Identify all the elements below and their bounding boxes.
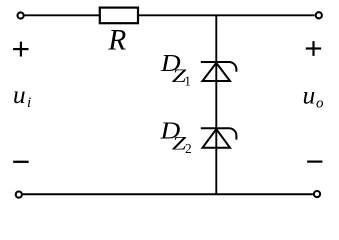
plus sign right: [306, 41, 321, 56]
wire vertical branch: [215, 15, 217, 194]
minus sign right: [307, 161, 322, 163]
label uo: [303, 80, 325, 111]
wire top-left to resistor: [25, 14, 99, 16]
label DZ2: [159, 117, 191, 156]
svg-text:o: o: [316, 95, 324, 111]
svg-text:i: i: [27, 95, 31, 111]
zener diode DZ2: [201, 128, 237, 148]
label ui: [13, 80, 31, 111]
plus sign left: [13, 42, 28, 57]
terminal bottom-left: [16, 192, 22, 198]
label DZ1: [160, 49, 191, 88]
svg-text:u: u: [13, 80, 26, 109]
svg-text:1: 1: [184, 74, 191, 89]
bottom wire: [23, 193, 313, 195]
zener diode DZ1: [201, 62, 237, 81]
svg-text:u: u: [303, 80, 316, 109]
wire resistor to top-right: [139, 14, 315, 16]
terminal top-right: [316, 12, 322, 18]
terminal top-left: [18, 12, 24, 18]
minus sign left: [13, 161, 28, 163]
terminal bottom-right: [314, 191, 320, 197]
svg-text:2: 2: [185, 141, 192, 156]
resistor R: [100, 8, 138, 24]
svg-text:R: R: [107, 24, 126, 56]
